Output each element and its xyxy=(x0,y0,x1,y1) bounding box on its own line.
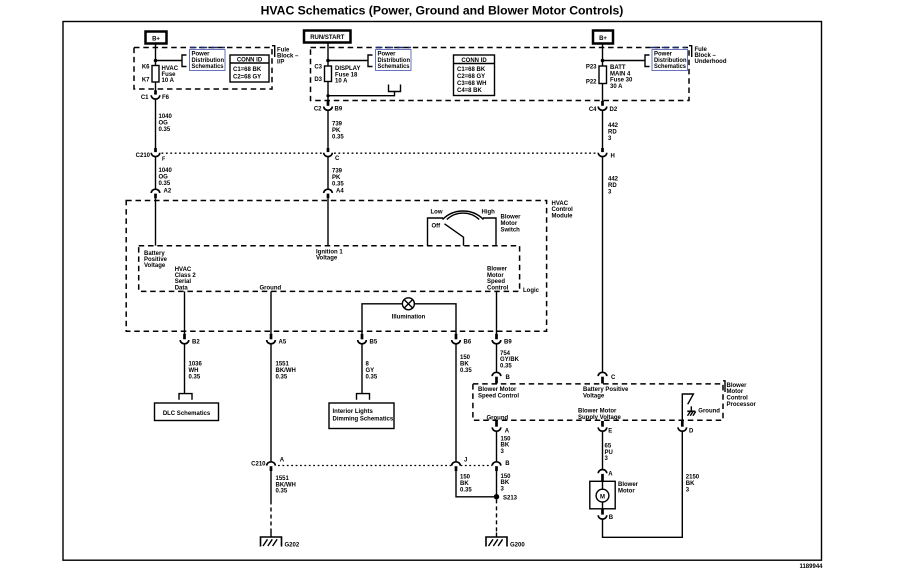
svg-text:E: E xyxy=(608,428,612,434)
wire RUN/START to DISPLAY fuse xyxy=(327,43,329,67)
svg-text:DISPLAY: DISPLAY xyxy=(335,66,360,72)
svg-text:Blower: Blower xyxy=(501,215,522,221)
value label 442 RD 3 xyxy=(608,177,619,196)
svg-text:Illumination: Illumination xyxy=(392,315,426,321)
reference bracket Power Distribution (right) xyxy=(645,55,650,67)
svg-text:0.35: 0.35 xyxy=(159,181,171,187)
connector C210 pin H xyxy=(598,148,615,160)
value label 65 PU 3 xyxy=(605,444,613,463)
svg-text:K6: K6 xyxy=(142,65,150,71)
lamp illumination xyxy=(402,298,414,310)
svg-text:150: 150 xyxy=(501,436,512,442)
svg-text:3: 3 xyxy=(608,190,612,196)
label Fule Block Underhood xyxy=(689,46,727,65)
reference box Interior Lights Dimming Schematics xyxy=(329,403,394,429)
svg-text:Class 2: Class 2 xyxy=(175,273,197,279)
svg-text:Distribution: Distribution xyxy=(192,58,225,64)
connector pin B6 xyxy=(452,334,472,346)
connector pin J xyxy=(452,457,468,471)
label Blower Motor xyxy=(618,482,639,494)
dotted harness line C210 lower xyxy=(278,465,452,467)
wire 442 RD upper segment xyxy=(602,110,604,148)
svg-text:Distribution: Distribution xyxy=(654,58,687,64)
svg-text:0.35: 0.35 xyxy=(159,127,171,133)
connector pin B5 xyxy=(358,334,378,346)
wire logic to A5 xyxy=(270,291,272,334)
connector pin A blower motor xyxy=(598,470,613,482)
svg-text:B2: B2 xyxy=(192,339,200,345)
reference bracket Power Distribution (I/P) xyxy=(182,55,187,67)
svg-text:Ground: Ground xyxy=(487,415,509,421)
svg-text:C210: C210 xyxy=(251,461,266,467)
svg-text:A5: A5 xyxy=(279,339,287,345)
svg-text:Underhood: Underhood xyxy=(695,59,727,65)
connector C1/F6 xyxy=(141,90,170,101)
svg-text:Interior Lights: Interior Lights xyxy=(333,409,374,415)
svg-text:150: 150 xyxy=(460,475,471,481)
svg-text:0.35: 0.35 xyxy=(332,182,344,188)
svg-text:B: B xyxy=(506,375,511,381)
svg-text:Serial: Serial xyxy=(175,279,192,285)
wire 442 RD lower segment xyxy=(602,157,604,373)
power symbol RUN/START xyxy=(304,31,351,43)
module U1 HVAC Control Module outline xyxy=(126,201,546,332)
svg-text:1040: 1040 xyxy=(159,168,173,174)
ground G202 xyxy=(261,533,300,549)
svg-text:Control: Control xyxy=(487,285,509,291)
svg-text:Distribution: Distribution xyxy=(378,58,411,64)
svg-text:Logic: Logic xyxy=(523,288,540,294)
wire 150 BK 3 lower xyxy=(496,471,498,497)
value label 1551 BK/WH 0.35 xyxy=(276,362,296,381)
svg-text:F: F xyxy=(162,157,165,163)
svg-text:10 A: 10 A xyxy=(335,79,348,85)
wire to Power Distribution reference (I/P) xyxy=(156,60,183,62)
svg-text:2150: 2150 xyxy=(686,475,700,481)
svg-text:D: D xyxy=(689,428,694,434)
net label Battery Positive Voltage xyxy=(583,387,629,399)
value label 442 RD 3 xyxy=(608,123,619,142)
junction at BATT MAIN 4 fuse input xyxy=(601,59,605,63)
svg-text:Motor: Motor xyxy=(487,273,504,279)
wire A2 to logic block xyxy=(155,198,157,245)
wire 739 PK lower segment xyxy=(327,157,329,190)
value label BATT MAIN 4 Fuse 30 30 A xyxy=(610,65,633,90)
svg-text:BK: BK xyxy=(686,481,695,487)
connector pin B9 xyxy=(492,334,512,346)
dotted harness line C210 xyxy=(162,152,323,154)
svg-text:442: 442 xyxy=(608,123,619,129)
svg-text:Data: Data xyxy=(175,285,189,291)
svg-text:Ground: Ground xyxy=(260,285,282,291)
connector pin D processor output xyxy=(678,421,694,434)
svg-text:BK/WH: BK/WH xyxy=(276,482,296,488)
svg-text:Voltage: Voltage xyxy=(583,394,605,400)
reference bracket to DLC Schematics xyxy=(179,394,192,400)
svg-text:442: 442 xyxy=(608,177,619,183)
svg-text:0.35: 0.35 xyxy=(500,363,512,369)
svg-text:Control: Control xyxy=(552,207,574,213)
wire to unused connector stub xyxy=(328,92,395,96)
svg-text:Schematics: Schematics xyxy=(192,64,225,70)
svg-text:C1: C1 xyxy=(141,95,149,101)
svg-text:C4: C4 xyxy=(589,107,597,113)
net label Battery Positive Voltage xyxy=(144,251,168,269)
svg-text:C1=68 BK: C1=68 BK xyxy=(457,67,486,73)
svg-text:8: 8 xyxy=(366,362,370,368)
svg-text:Schematics: Schematics xyxy=(654,64,687,70)
reference box Power Distribution Schematics (middle) xyxy=(376,50,412,71)
svg-text:C1=68 BK: C1=68 BK xyxy=(233,67,262,73)
value label 150 BK 0.35 xyxy=(460,475,472,494)
svg-text:A: A xyxy=(608,471,613,477)
wire 65 PU 3 xyxy=(602,431,604,469)
svg-text:Battery Positive: Battery Positive xyxy=(583,387,629,393)
svg-text:H: H xyxy=(611,153,615,159)
connector C210 pin C xyxy=(324,148,340,162)
junction to unused tap xyxy=(326,94,329,97)
label Blower Motor Switch xyxy=(501,215,522,234)
value label 739 PK 0.35 xyxy=(332,169,344,188)
net label Blower Motor Supply Voltage xyxy=(578,408,622,420)
value label 150 BK 3 xyxy=(501,474,512,493)
connector pin A5 xyxy=(267,334,287,346)
net label Ignition 1 Voltage xyxy=(316,249,343,261)
svg-text:PU: PU xyxy=(605,450,613,456)
svg-text:3: 3 xyxy=(501,449,505,455)
blower motor switch dial arc xyxy=(443,211,484,219)
svg-text:Blower: Blower xyxy=(487,267,508,273)
wire blower motor return to D xyxy=(603,431,683,537)
svg-text:A: A xyxy=(280,457,285,463)
svg-text:J: J xyxy=(464,457,467,463)
svg-text:B6: B6 xyxy=(464,339,472,345)
wire logic to B2 xyxy=(184,291,186,334)
svg-text:M: M xyxy=(600,495,605,501)
wire 150 BK upper xyxy=(455,344,457,462)
svg-text:1036: 1036 xyxy=(189,362,203,368)
svg-text:Blower Motor: Blower Motor xyxy=(578,408,617,414)
fuse block I/P outline xyxy=(134,48,272,90)
svg-text:D2: D2 xyxy=(610,107,618,113)
svg-text:0.35: 0.35 xyxy=(460,487,472,493)
svg-text:BK: BK xyxy=(460,481,469,487)
value label 1040 OG 0.35 xyxy=(159,114,173,133)
fuse DISPLAY Fuse 18 xyxy=(325,66,332,82)
svg-text:P23: P23 xyxy=(586,64,597,70)
value label 739 PK 0.35 xyxy=(332,122,344,141)
svg-text:150: 150 xyxy=(460,355,471,361)
svg-text:0.35: 0.35 xyxy=(366,375,378,381)
svg-text:Power: Power xyxy=(192,52,211,58)
svg-text:0.35: 0.35 xyxy=(276,489,288,495)
dashed wire to ground G200 xyxy=(496,499,498,532)
svg-text:Fuse 18: Fuse 18 xyxy=(335,72,358,78)
svg-text:BATT: BATT xyxy=(610,65,626,71)
svg-text:A2: A2 xyxy=(164,189,172,195)
power symbol B+ (fuse block I/P) xyxy=(146,32,167,44)
wire 150 BK 3 upper xyxy=(496,431,498,462)
label Fule Block I/P xyxy=(272,46,299,66)
reference box Power Distribution Schematics (right) xyxy=(652,50,688,71)
connector pin B blower motor control processor xyxy=(492,372,510,383)
svg-text:HVAC: HVAC xyxy=(175,267,192,273)
svg-text:Blower Motor: Blower Motor xyxy=(478,387,517,393)
value label 2150 BK 3 xyxy=(686,475,700,494)
logic block outline xyxy=(139,246,520,292)
connector C210 pin F xyxy=(136,148,166,163)
svg-text:Voltage: Voltage xyxy=(144,263,166,269)
svg-text:C3=68 WH: C3=68 WH xyxy=(457,81,487,87)
svg-text:B9: B9 xyxy=(335,107,343,113)
wire BATT fuse to connector C4 xyxy=(602,84,604,102)
svg-text:G200: G200 xyxy=(510,542,525,548)
svg-text:Processor: Processor xyxy=(727,402,757,408)
blower motor switch S1 body xyxy=(428,218,444,246)
fuse BATT MAIN 4 Fuse 30 xyxy=(599,66,607,84)
illumination branch wire left xyxy=(362,304,403,334)
value label HVAC Fuse 10 A xyxy=(162,66,179,84)
label HVAC Control Module xyxy=(552,201,574,220)
value label 150 BK 0.35 xyxy=(460,355,472,374)
svg-text:C3: C3 xyxy=(314,65,322,71)
svg-text:1189944: 1189944 xyxy=(799,564,823,570)
svg-text:MAIN 4: MAIN 4 xyxy=(610,71,631,77)
table CONN ID (fuse block underhood) xyxy=(454,55,495,96)
wire A4 to logic block xyxy=(327,198,329,245)
svg-text:0.35: 0.35 xyxy=(276,375,288,381)
svg-text:C2: C2 xyxy=(314,107,322,113)
svg-text:3: 3 xyxy=(501,487,505,493)
junction at HVAC fuse input xyxy=(154,59,158,63)
connector C4/D2 xyxy=(589,101,618,113)
svg-text:Off: Off xyxy=(432,224,442,230)
internal ground hook of processor xyxy=(682,394,720,420)
svg-text:F6: F6 xyxy=(162,95,170,101)
reference bracket Power Distribution (middle) xyxy=(368,55,373,67)
svg-text:1040: 1040 xyxy=(159,114,173,120)
svg-text:3: 3 xyxy=(608,136,612,142)
svg-text:Speed: Speed xyxy=(487,279,505,285)
svg-text:Voltage: Voltage xyxy=(316,256,338,262)
svg-text:C: C xyxy=(611,375,616,381)
svg-text:3: 3 xyxy=(605,456,609,462)
wire 150 BK 0.35 to splice xyxy=(456,471,497,497)
svg-text:A4: A4 xyxy=(336,189,344,195)
svg-text:Motor: Motor xyxy=(501,221,518,227)
net label HVAC Class 2 Serial Data xyxy=(175,267,197,292)
svg-text:GY: GY xyxy=(366,368,375,374)
svg-text:Module: Module xyxy=(552,213,574,219)
svg-text:OG: OG xyxy=(159,121,169,127)
svg-text:C: C xyxy=(335,156,340,162)
svg-text:739: 739 xyxy=(332,169,343,175)
svg-text:Ignition 1: Ignition 1 xyxy=(316,249,343,255)
svg-text:Switch: Switch xyxy=(501,228,521,234)
svg-text:HVAC Schematics (Power, Ground: HVAC Schematics (Power, Ground and Blowe… xyxy=(261,3,624,17)
svg-text:B+: B+ xyxy=(152,37,160,43)
svg-text:B5: B5 xyxy=(370,339,378,345)
wire 1040 OG upper segment xyxy=(155,99,157,148)
svg-text:Blower: Blower xyxy=(618,482,639,488)
wire to Power Distribution reference (middle) xyxy=(328,60,368,62)
svg-text:RUN/START: RUN/START xyxy=(310,35,345,41)
svg-text:HVAC: HVAC xyxy=(552,201,569,207)
svg-text:754: 754 xyxy=(500,351,511,357)
connector pin A2 HVAC control module xyxy=(151,189,172,199)
svg-text:Ground: Ground xyxy=(698,409,720,415)
svg-text:Control: Control xyxy=(727,396,749,402)
wire logic to B9 xyxy=(496,291,498,334)
svg-text:65: 65 xyxy=(605,444,612,450)
label Blower Motor Control Processor xyxy=(723,381,757,408)
value label DISPLAY Fuse 18 10 A xyxy=(335,66,360,85)
svg-text:Power: Power xyxy=(654,52,673,58)
connector pin B at C210 line xyxy=(492,461,510,471)
connector C210 pin A xyxy=(251,457,285,471)
svg-text:0.35: 0.35 xyxy=(460,368,472,374)
svg-text:A: A xyxy=(505,428,510,434)
svg-text:BK: BK xyxy=(460,362,469,368)
svg-text:Motor: Motor xyxy=(727,389,744,395)
svg-text:Motor: Motor xyxy=(618,489,635,495)
svg-text:739: 739 xyxy=(332,122,343,128)
connector pin B blower motor xyxy=(598,509,614,521)
net label Blower Motor Speed Control xyxy=(487,267,509,292)
svg-text:B+: B+ xyxy=(599,36,607,42)
connector pin A processor output xyxy=(492,421,510,434)
svg-text:0.35: 0.35 xyxy=(189,375,201,381)
svg-text:B9: B9 xyxy=(504,339,512,345)
svg-text:Low: Low xyxy=(431,210,443,216)
junction at DISPLAY fuse input xyxy=(326,59,330,63)
svg-text:C4=8 BK: C4=8 BK xyxy=(457,88,483,94)
svg-text:BK: BK xyxy=(501,443,510,449)
wire DISPLAY fuse down xyxy=(327,82,329,102)
ground G200 xyxy=(486,533,525,549)
svg-text:CONN ID: CONN ID xyxy=(237,58,263,64)
svg-text:30 A: 30 A xyxy=(610,84,623,90)
value label 1036 WH 0.35 xyxy=(189,362,203,381)
svg-text:Supply Voltage: Supply Voltage xyxy=(578,415,622,421)
svg-text:C2=68 GY: C2=68 GY xyxy=(233,75,261,81)
svg-text:PK: PK xyxy=(332,128,341,134)
svg-text:S213: S213 xyxy=(503,495,518,501)
reference box Power Distribution Schematics (I/P) xyxy=(190,50,226,71)
wire HVAC fuse to connector C1 xyxy=(155,82,157,91)
connector pin A4 HVAC control module xyxy=(324,189,345,199)
svg-text:DLC Schematics: DLC Schematics xyxy=(163,411,211,417)
svg-text:3: 3 xyxy=(686,487,690,493)
svg-text:0.35: 0.35 xyxy=(332,135,344,141)
wire 1040 OG lower segment xyxy=(155,157,157,190)
svg-text:10 A: 10 A xyxy=(162,78,175,84)
value label 1040 OG 0.35 xyxy=(159,168,173,187)
value label 754 GY/BK 0.35 xyxy=(500,351,520,370)
svg-text:BK: BK xyxy=(501,480,510,486)
svg-text:Dimming Schematics: Dimming Schematics xyxy=(333,416,394,422)
illumination branch wire right xyxy=(414,304,456,334)
svg-text:P22: P22 xyxy=(586,79,597,85)
wire 1551 BK/WH upper xyxy=(270,344,272,462)
wire to Power Distribution reference (right) xyxy=(603,60,646,62)
navy dash accent above Power Distribution box xyxy=(190,47,225,49)
wire 1036 WH xyxy=(184,344,186,394)
svg-text:1551: 1551 xyxy=(276,476,290,482)
svg-text:CONN ID: CONN ID xyxy=(461,58,487,64)
wire 8 GY xyxy=(361,344,363,394)
unused connector stub symbol xyxy=(389,85,401,92)
svg-text:GY/BK: GY/BK xyxy=(500,357,520,363)
svg-text:G202: G202 xyxy=(285,542,300,548)
navy dash accent above Power Distribution box (middle) xyxy=(376,47,411,49)
value label 150 BK 3 xyxy=(501,436,512,455)
connector pin C blower motor control processor xyxy=(598,372,616,383)
svg-text:D3: D3 xyxy=(314,77,322,83)
wire B+ to BATT MAIN 4 fuse xyxy=(602,44,604,67)
navy dash accent above Power Distribution box (right) xyxy=(651,47,686,49)
connector pin B2 xyxy=(180,334,200,346)
svg-text:RD: RD xyxy=(608,183,617,189)
wire 754 GY/BK xyxy=(496,344,498,373)
svg-text:Power: Power xyxy=(378,52,397,58)
svg-text:Speed Control: Speed Control xyxy=(478,394,519,400)
motor M1 Blower Motor xyxy=(590,481,615,509)
reference box DLC Schematics xyxy=(155,403,219,421)
dashed wire to ground G202 xyxy=(270,501,272,533)
value label 8 GY 0.35 xyxy=(366,362,378,381)
power symbol B+ (fuse block underhood) xyxy=(593,31,613,44)
value label 1551 BK/WH 0.35 xyxy=(276,476,296,495)
svg-text:1551: 1551 xyxy=(276,362,290,368)
svg-text:RD: RD xyxy=(608,130,617,136)
net label Blower Motor Speed Control xyxy=(478,387,519,399)
connector C2/B9 xyxy=(314,101,343,113)
table CONN ID (fuse block I/P) xyxy=(230,55,269,82)
wire 1551 BK/WH lower xyxy=(270,471,272,501)
svg-text:OG: OG xyxy=(159,175,169,181)
switch lever xyxy=(445,224,464,246)
svg-text:B: B xyxy=(609,515,614,521)
svg-text:C210: C210 xyxy=(136,153,151,159)
svg-text:WH: WH xyxy=(189,368,199,374)
fuse HVAC Fuse 10A xyxy=(152,66,159,83)
wire B+ to HVAC fuse xyxy=(155,44,157,66)
splice S213 xyxy=(494,494,518,501)
svg-text:Fuse 30: Fuse 30 xyxy=(610,78,633,84)
wire 739 PK upper segment xyxy=(327,110,329,148)
svg-text:PK: PK xyxy=(332,175,341,181)
svg-text:K7: K7 xyxy=(142,78,150,84)
svg-text:High: High xyxy=(482,210,496,216)
svg-text:Schematics: Schematics xyxy=(378,64,411,70)
svg-text:BK/WH: BK/WH xyxy=(276,368,296,374)
reference bracket to Interior Lights Dimming Schematics xyxy=(357,394,370,400)
svg-text:I/P: I/P xyxy=(277,60,284,66)
module U2 Blower Motor Control Processor outline xyxy=(473,384,723,420)
svg-text:Blower: Blower xyxy=(727,383,748,389)
svg-text:150: 150 xyxy=(501,474,512,480)
connector pin E processor output xyxy=(598,421,612,434)
svg-text:C2=68 GY: C2=68 GY xyxy=(457,74,485,80)
fuse block underhood outline xyxy=(311,48,690,101)
svg-text:B: B xyxy=(505,461,510,467)
